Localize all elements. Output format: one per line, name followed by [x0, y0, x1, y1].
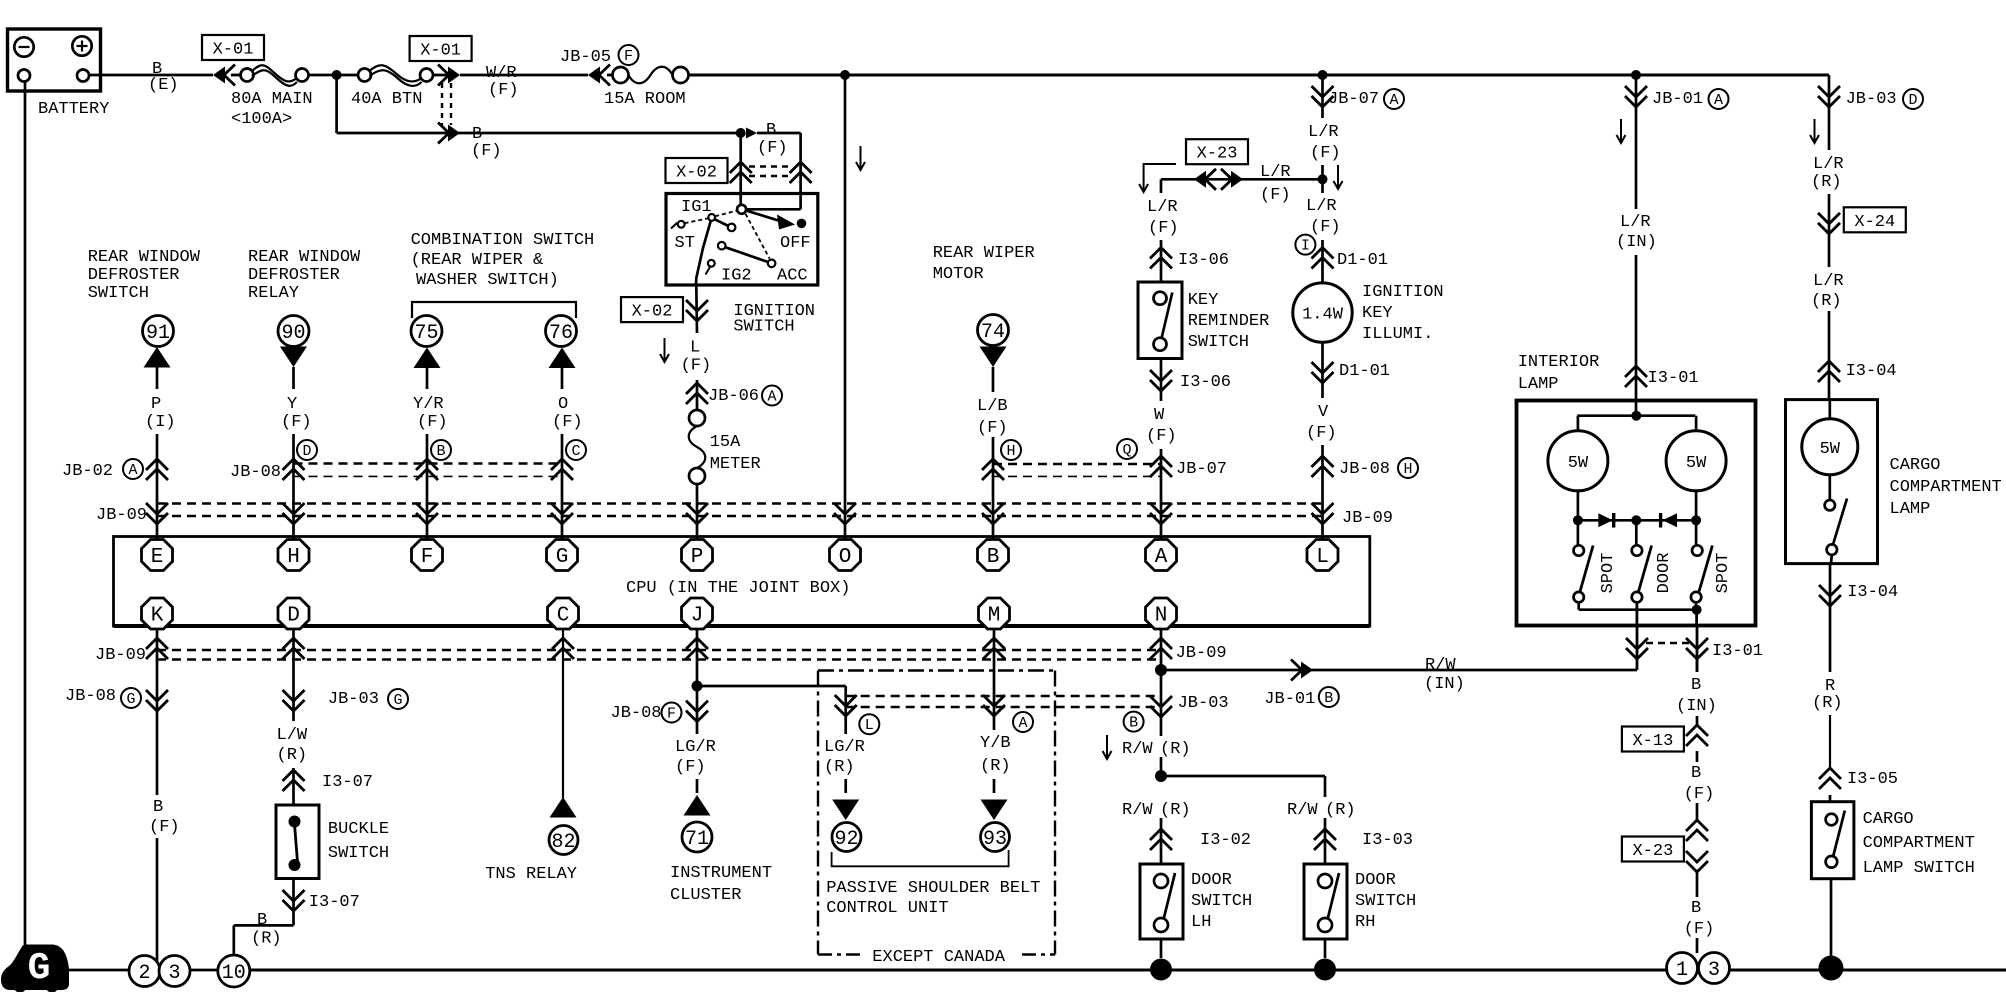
svg-text:D: D — [287, 605, 300, 628]
svg-text:REAR WINDOW: REAR WINDOW — [88, 248, 201, 267]
svg-text:CLUSTER: CLUSTER — [670, 886, 741, 905]
connector I3-07 lower — [283, 890, 305, 911]
wire L/R(F) col L upper — [1321, 75, 1324, 118]
svg-text:(I): (I) — [145, 413, 176, 432]
svg-text:3: 3 — [168, 962, 180, 985]
svg-text:I3-07: I3-07 — [309, 893, 360, 912]
CPU pin F — [412, 540, 443, 571]
connector I3-05 — [1819, 768, 1841, 789]
svg-text:INSTRUMENT: INSTRUMENT — [670, 864, 772, 883]
svg-text:I3-01: I3-01 — [1712, 642, 1763, 661]
svg-text:(F): (F) — [149, 818, 180, 837]
direction arrow key reminder — [1144, 164, 1176, 190]
svg-text:74: 74 — [981, 321, 1005, 344]
svg-text:JB-02: JB-02 — [62, 462, 113, 481]
svg-text:CONTROL UNIT: CONTROL UNIT — [826, 899, 948, 918]
svg-text:JB-03: JB-03 — [1178, 694, 1229, 713]
wire col M Y/B — [993, 628, 996, 730]
battery — [8, 29, 101, 91]
svg-text:(F): (F) — [1684, 785, 1715, 804]
svg-text:I: I — [1301, 238, 1310, 255]
connector I3-06 upper — [1150, 248, 1172, 269]
terminal 90 — [278, 316, 309, 347]
connector I3-01 upper — [1625, 366, 1647, 387]
connector JB-07 H — [982, 459, 1004, 480]
svg-text:X-23: X-23 — [1197, 145, 1238, 164]
connector JB-08 H right — [1312, 456, 1334, 477]
svg-text:J: J — [691, 605, 704, 628]
svg-text:LG/R: LG/R — [824, 738, 865, 757]
svg-text:R/W: R/W — [1122, 740, 1153, 759]
svg-text:JB-03: JB-03 — [328, 690, 379, 709]
connector JB-02 A — [146, 459, 168, 480]
svg-text:H: H — [1403, 461, 1412, 478]
ground dot cargo — [1819, 956, 1844, 981]
svg-text:71: 71 — [685, 828, 709, 851]
svg-text:METER: METER — [710, 455, 761, 474]
CPU joint box — [114, 537, 1370, 627]
svg-text:X-23: X-23 — [1632, 842, 1673, 861]
svg-text:(REAR WIPER &: (REAR WIPER & — [411, 251, 544, 270]
junction dot J branch — [692, 681, 703, 692]
svg-text:B: B — [1691, 676, 1701, 695]
terminal bracket 92-93 — [832, 850, 1009, 866]
svg-text:M: M — [988, 605, 1001, 628]
terminal 91 — [143, 316, 174, 347]
terminal 93 — [981, 823, 1010, 852]
ground dot LH — [1150, 959, 1172, 981]
svg-text:JB-08: JB-08 — [230, 463, 281, 482]
svg-text:5W: 5W — [1820, 440, 1841, 459]
wire B(F) second row — [335, 75, 338, 133]
svg-text:1: 1 — [1676, 959, 1688, 982]
terminal 74 — [978, 315, 1009, 346]
ignition switch dashed positions — [685, 218, 709, 223]
bus JB-09 upper dashed — [157, 502, 1323, 504]
svg-text:K: K — [151, 605, 164, 628]
svg-text:JB-03: JB-03 — [1846, 90, 1897, 109]
combination switch bracket — [412, 302, 576, 318]
svg-text:(R): (R) — [1325, 801, 1356, 820]
svg-text:(F): (F) — [471, 142, 502, 161]
svg-text:A: A — [1389, 92, 1398, 109]
terminal 1 — [1667, 953, 1698, 984]
interior lamp bottom bus — [1577, 602, 1580, 610]
connector JB-09 chevron — [551, 503, 573, 524]
CPU pin A — [1146, 540, 1177, 571]
svg-text:LH: LH — [1191, 913, 1211, 932]
svg-text:G: G — [393, 692, 402, 709]
svg-text:A: A — [1018, 715, 1027, 732]
terminal 92 — [832, 823, 861, 852]
svg-text:SWITCH: SWITCH — [1191, 892, 1252, 911]
connector JB-03 D — [1818, 86, 1840, 107]
svg-text:F: F — [624, 48, 633, 65]
connector X-01 left — [202, 35, 264, 60]
svg-text:JB-09: JB-09 — [95, 646, 146, 665]
svg-text:80A MAIN: 80A MAIN — [231, 90, 313, 109]
svg-text:H: H — [1006, 443, 1015, 460]
junction dot N to JB-01 — [1155, 664, 1167, 676]
svg-text:(F): (F) — [1306, 424, 1337, 443]
connector JB-09 chevron — [283, 638, 305, 659]
svg-text:(IN): (IN) — [1676, 697, 1717, 716]
svg-text:D: D — [302, 443, 311, 460]
svg-text:(F): (F) — [675, 758, 706, 777]
svg-text:SWITCH: SWITCH — [733, 318, 794, 337]
wire Y(F) col H — [292, 367, 295, 389]
connector JB-09 chevron — [686, 503, 708, 524]
svg-text:Y: Y — [287, 395, 297, 414]
wire L/R(F) lower to bulb — [1321, 179, 1324, 193]
svg-text:Q: Q — [1122, 442, 1131, 459]
svg-text:OFF: OFF — [780, 234, 811, 253]
connector JB-01 A — [1625, 86, 1647, 107]
connector JB-07 Q — [1150, 456, 1172, 477]
svg-text:5W: 5W — [1568, 454, 1589, 473]
junction dot ignition feed — [736, 128, 746, 138]
CPU pin C — [548, 598, 579, 629]
ignition switch box — [666, 194, 818, 286]
diode left — [1598, 513, 1612, 527]
bottom ground rail — [62, 969, 129, 972]
svg-text:B: B — [1691, 899, 1701, 918]
connector I3-03 — [1314, 829, 1336, 850]
connector JB-09 chevron — [146, 503, 168, 524]
wire L/B(F) col B — [992, 367, 995, 392]
terminal 75 — [411, 316, 442, 347]
svg-text:(R): (R) — [824, 758, 855, 777]
svg-text:COMPARTMENT: COMPARTMENT — [1890, 478, 2002, 497]
svg-text:F: F — [667, 706, 676, 723]
svg-text:10: 10 — [222, 962, 246, 985]
svg-text:90: 90 — [281, 322, 305, 345]
wire P(I) col E — [156, 368, 159, 390]
cargo compartment lamp switch — [1829, 795, 1832, 802]
svg-text:X-02: X-02 — [676, 164, 717, 183]
svg-text:JB-05: JB-05 — [560, 48, 611, 67]
svg-text:(R): (R) — [277, 746, 308, 765]
svg-text:X-13: X-13 — [1632, 732, 1673, 751]
wire branch to passive belt unit — [697, 685, 846, 688]
svg-text:IG1: IG1 — [681, 198, 712, 217]
wire L(F) to CPU pin P — [695, 285, 698, 333]
svg-text:91: 91 — [146, 322, 170, 345]
svg-text:TNS RELAY: TNS RELAY — [485, 865, 577, 884]
svg-text:X-24: X-24 — [1854, 213, 1895, 232]
svg-text:JB-07: JB-07 — [1176, 460, 1227, 479]
fuse 80A MAIN — [231, 74, 241, 77]
svg-text:(R): (R) — [1160, 801, 1191, 820]
connector I3-06 lower — [1150, 370, 1172, 391]
svg-text:JB-08: JB-08 — [1339, 460, 1390, 479]
svg-text:3: 3 — [1708, 959, 1720, 982]
svg-text:DOOR: DOOR — [1355, 871, 1396, 890]
connector JB-07 A top — [1318, 70, 1328, 80]
svg-text:B: B — [1691, 764, 1701, 783]
svg-text:L: L — [1316, 546, 1329, 569]
wire col D to buckle switch — [292, 628, 295, 721]
svg-text:B: B — [1129, 715, 1138, 732]
wire JB-01 B R/W(IN) — [1161, 669, 1637, 672]
svg-text:G: G — [556, 546, 569, 569]
connector X-23 lower — [1622, 837, 1684, 862]
svg-text:CPU (IN THE JOINT BOX): CPU (IN THE JOINT BOX) — [626, 579, 850, 598]
svg-text:(R): (R) — [1160, 740, 1191, 759]
CPU pin O — [830, 540, 861, 571]
svg-text:B: B — [987, 546, 1000, 569]
connector I3-02 — [1150, 829, 1172, 850]
svg-text:IG2: IG2 — [721, 267, 752, 286]
svg-text:1.4W: 1.4W — [1302, 306, 1344, 325]
CPU pin M — [979, 598, 1010, 629]
svg-text:B: B — [766, 121, 776, 140]
svg-text:SWITCH: SWITCH — [328, 844, 389, 863]
svg-text:KEY: KEY — [1188, 291, 1219, 310]
connector JB-08 B — [416, 459, 438, 480]
connector JB-09 chevron — [552, 638, 574, 659]
svg-text:L/R: L/R — [1147, 198, 1178, 217]
svg-text:G: G — [126, 691, 135, 708]
connector JB-09 chevron — [982, 503, 1004, 524]
svg-text:LAMP: LAMP — [1890, 500, 1931, 519]
connector JB-09 chevron — [983, 638, 1005, 659]
connector JB-06 A — [686, 383, 708, 404]
svg-text:JB-09: JB-09 — [96, 506, 147, 525]
svg-text:I3-02: I3-02 — [1200, 831, 1251, 850]
svg-text:RH: RH — [1355, 913, 1375, 932]
svg-text:L/B: L/B — [977, 397, 1008, 416]
svg-text:DEFROSTER: DEFROSTER — [88, 266, 180, 285]
svg-text:DOOR: DOOR — [1655, 553, 1674, 594]
wire Y/R(F) col F — [426, 368, 429, 389]
wire W(F) — [1160, 359, 1163, 402]
svg-text:A: A — [128, 462, 137, 479]
svg-text:JB-07: JB-07 — [1328, 90, 1379, 109]
svg-text:I3-06: I3-06 — [1180, 373, 1231, 392]
wire col C to TNS relay — [562, 628, 564, 798]
svg-text:93: 93 — [983, 828, 1007, 851]
connector JB-09 chevron — [416, 503, 438, 524]
wire col J to instrument cluster — [696, 628, 699, 734]
connector JB-08 D — [283, 459, 305, 480]
svg-text:WASHER SWITCH): WASHER SWITCH) — [416, 271, 559, 290]
svg-text:(F): (F) — [1146, 427, 1177, 446]
connector JB-08 G — [146, 690, 168, 711]
ignition switch contacts — [737, 205, 746, 214]
svg-text:R/W: R/W — [1287, 801, 1318, 820]
svg-text:DEFROSTER: DEFROSTER — [248, 266, 340, 285]
svg-text:LAMP SWITCH: LAMP SWITCH — [1863, 859, 1975, 878]
wire L/R(F) key reminder — [1160, 179, 1163, 193]
svg-text:COMBINATION SWITCH: COMBINATION SWITCH — [411, 231, 595, 250]
svg-text:(E): (E) — [148, 76, 179, 95]
svg-text:V: V — [1318, 403, 1329, 422]
svg-text:CARGO: CARGO — [1863, 810, 1914, 829]
svg-text:REAR WINDOW: REAR WINDOW — [248, 248, 361, 267]
connector X-24 — [1818, 213, 1840, 234]
svg-text:L/R: L/R — [1308, 123, 1339, 142]
svg-text:R/W: R/W — [1122, 801, 1153, 820]
connector JB-08 C — [551, 459, 573, 480]
wire cargo switch to ground — [1830, 879, 1833, 958]
connector X-23 top — [1186, 139, 1248, 164]
wire col cargo from top corner — [1828, 75, 1831, 150]
svg-text:(F): (F) — [977, 419, 1008, 438]
ground symbol G — [1, 945, 69, 991]
connector X-02 lower — [621, 297, 683, 322]
interior lamp bulb right 5W — [1666, 431, 1726, 491]
svg-text:B: B — [1324, 690, 1333, 707]
svg-text:I3-04: I3-04 — [1847, 583, 1898, 602]
bus JB-07 dashed — [993, 463, 1160, 465]
svg-text:X-01: X-01 — [420, 42, 461, 61]
svg-text:(F): (F) — [1310, 218, 1341, 237]
svg-text:I3-07: I3-07 — [322, 773, 373, 792]
wire X-23 link — [1161, 178, 1323, 181]
CPU pin K — [142, 598, 173, 629]
wire W/R(F) top feed — [460, 74, 588, 77]
wire RH branch — [1161, 775, 1325, 778]
svg-text:BATTERY: BATTERY — [38, 100, 109, 119]
connector I3-04 lower — [1829, 564, 1832, 672]
svg-text:R/W: R/W — [1425, 656, 1456, 675]
svg-text:SWITCH: SWITCH — [1188, 333, 1249, 352]
svg-text:JB-09: JB-09 — [1176, 644, 1227, 663]
connector JB-09 chevron — [1150, 638, 1172, 659]
svg-text:ILLUMI.: ILLUMI. — [1362, 325, 1433, 344]
svg-text:L/R: L/R — [1813, 155, 1844, 174]
svg-text:E: E — [151, 546, 164, 569]
wire top main run — [689, 74, 1830, 77]
bus JB-08 dashed — [294, 462, 563, 464]
svg-text:DOOR: DOOR — [1191, 871, 1232, 890]
svg-text:I3-04: I3-04 — [1846, 362, 1897, 381]
except canada dashed box — [818, 669, 1055, 671]
junction dot main/BTN — [332, 70, 342, 80]
CPU pin D — [278, 598, 309, 629]
svg-text:JB-08: JB-08 — [611, 704, 662, 723]
svg-text:D1-01: D1-01 — [1337, 251, 1388, 270]
svg-text:L/R: L/R — [1260, 163, 1291, 182]
diode right — [1663, 513, 1677, 527]
svg-text:(IN): (IN) — [1616, 233, 1657, 252]
svg-text:SPOT: SPOT — [1714, 553, 1733, 594]
connector D1-01 upper — [1312, 248, 1334, 269]
connector chevron A — [983, 695, 1005, 716]
wire O(F) col G — [561, 368, 564, 389]
key reminder switch — [1138, 282, 1182, 359]
fuse 40A BTN — [341, 74, 358, 77]
svg-text:40A BTN: 40A BTN — [351, 90, 422, 109]
CPU pin L — [1307, 540, 1338, 571]
svg-text:KEY: KEY — [1362, 304, 1393, 323]
ignition OFF arrow — [746, 211, 780, 221]
door switch RH — [1304, 864, 1347, 939]
wire col N door switches — [1160, 628, 1163, 736]
svg-text:(R): (R) — [980, 757, 1011, 776]
connector JB-03 B — [1150, 696, 1172, 717]
svg-text:N: N — [1155, 605, 1168, 628]
svg-text:L/R: L/R — [1813, 272, 1844, 291]
svg-text:<100A>: <100A> — [231, 110, 292, 129]
svg-text:(F): (F) — [1684, 920, 1715, 939]
bus JB-03 dashed lower — [846, 695, 1161, 697]
svg-text:JB-06: JB-06 — [708, 387, 759, 406]
interior lamp bulb left 5W — [1548, 431, 1608, 491]
svg-text:CARGO: CARGO — [1890, 456, 1941, 475]
svg-text:I3-03: I3-03 — [1362, 831, 1413, 850]
terminal 2 — [129, 956, 160, 987]
connector I3-01 lower pair — [1636, 625, 1639, 670]
ground dot RH — [1314, 959, 1336, 981]
connector I3-07 upper — [283, 770, 305, 791]
svg-text:A: A — [1714, 92, 1723, 109]
CPU pin P — [682, 540, 713, 571]
svg-text:15A ROOM: 15A ROOM — [604, 90, 686, 109]
svg-text:COMPARTMENT: COMPARTMENT — [1863, 834, 1975, 853]
connector chevron L — [835, 695, 857, 716]
CPU pin H — [278, 540, 309, 571]
interior lamp box — [1517, 401, 1756, 626]
svg-text:2: 2 — [138, 962, 150, 985]
svg-text:REAR WIPER: REAR WIPER — [933, 244, 1035, 263]
svg-text:(F): (F) — [281, 413, 312, 432]
connector JB-09 chevron — [146, 638, 168, 659]
svg-text:L: L — [690, 339, 700, 358]
connector JB-03 G — [283, 690, 305, 711]
svg-text:INTERIOR: INTERIOR — [1518, 353, 1600, 372]
junction dot N to RH — [1155, 770, 1167, 782]
svg-text:LG/R: LG/R — [675, 738, 716, 757]
connector D1-01 lower — [1312, 362, 1334, 383]
door switch LH — [1140, 864, 1183, 939]
CPU pin G — [547, 540, 578, 571]
fuse JB-05 15A ROOM — [588, 65, 610, 86]
svg-text:JB-08: JB-08 — [65, 687, 116, 706]
svg-text:RELAY: RELAY — [248, 284, 299, 303]
connector JB-08 F — [686, 701, 708, 722]
interior lamp switches — [1577, 520, 1580, 545]
svg-text:F: F — [421, 546, 434, 569]
terminal 82 — [549, 826, 578, 855]
svg-text:(F): (F) — [1310, 144, 1341, 163]
svg-text:SPOT: SPOT — [1599, 553, 1618, 594]
svg-text:L/R: L/R — [1306, 197, 1337, 216]
cargo compartment lamp box — [1786, 400, 1878, 564]
svg-text:C: C — [557, 605, 570, 628]
connector JB-09 chevron — [1312, 503, 1334, 524]
svg-text:(F): (F) — [681, 357, 712, 376]
svg-text:A: A — [1155, 546, 1168, 569]
svg-text:JB-09: JB-09 — [1342, 509, 1393, 528]
connector I3-04 upper — [1818, 361, 1840, 382]
svg-text:G: G — [28, 947, 51, 990]
svg-text:Y/R: Y/R — [413, 395, 444, 414]
svg-text:(IN): (IN) — [1424, 675, 1465, 694]
svg-text:BUCKLE: BUCKLE — [328, 820, 389, 839]
buckle switch — [276, 805, 319, 879]
svg-text:(R): (R) — [1812, 694, 1843, 713]
svg-text:L/R: L/R — [1620, 213, 1651, 232]
svg-text:(R): (R) — [1811, 173, 1842, 192]
connector JB-09 chevron — [686, 638, 708, 659]
wire V(F) — [1321, 342, 1324, 398]
svg-text:ST: ST — [675, 234, 695, 253]
svg-text:H: H — [287, 546, 300, 569]
connector JB-09 chevron — [283, 503, 305, 524]
connector JB-09 chevron — [834, 503, 856, 524]
